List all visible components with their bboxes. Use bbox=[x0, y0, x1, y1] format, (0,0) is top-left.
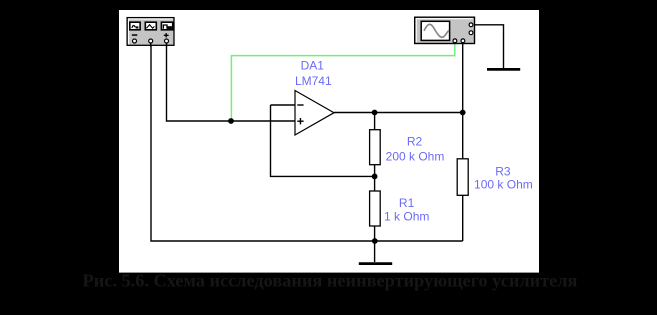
svg-text:1 k Ohm: 1 k Ohm bbox=[384, 210, 429, 224]
svg-text:R3: R3 bbox=[495, 165, 511, 179]
svg-text:200 k Ohm: 200 k Ohm bbox=[386, 150, 445, 164]
svg-text:R1: R1 bbox=[399, 196, 415, 210]
svg-text:100 k Ohm: 100 k Ohm bbox=[474, 178, 533, 192]
svg-text:Рис. 5.6. Схема исследования н: Рис. 5.6. Схема исследования неинвертиру… bbox=[83, 271, 578, 291]
svg-text:R2: R2 bbox=[407, 134, 423, 148]
svg-text:LM741: LM741 bbox=[295, 74, 332, 88]
svg-text:DA1: DA1 bbox=[301, 59, 325, 73]
